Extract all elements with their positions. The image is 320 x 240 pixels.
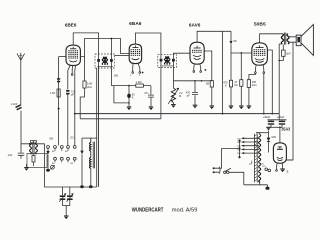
tube V4 50B5 envelope <box>252 43 268 65</box>
svg-text:1nF: 1nF <box>8 153 13 157</box>
wire V4 screen right <box>267 50 272 114</box>
resistor 470K grid leak <box>229 80 232 87</box>
capacitor C40b <box>279 120 285 128</box>
speaker driver <box>296 35 301 46</box>
node dot <box>142 72 144 74</box>
wire IFT1 secondary to V2 grid <box>114 54 129 56</box>
tube V5 35A3 envelope <box>273 143 286 163</box>
svg-text:B0: B0 <box>52 151 55 153</box>
wire V5 right heater <box>286 159 293 161</box>
wire B+ vertical <box>222 31 224 113</box>
wire screen resistor <box>80 57 84 119</box>
wire switch to transformer <box>229 172 244 185</box>
svg-text:B0: B0 <box>52 163 55 165</box>
tap 160 <box>242 141 260 143</box>
wire tuning bus <box>45 68 99 187</box>
wire AVC line <box>111 85 150 87</box>
svg-text:mod. A/59: mod. A/59 <box>172 207 198 213</box>
node <box>263 113 265 115</box>
wire diode loop <box>114 86 129 103</box>
svg-text:5K: 5K <box>233 39 237 43</box>
IF transformer T1 dashed box <box>95 54 114 68</box>
coil L1 antenna windings <box>30 142 38 155</box>
ground pot <box>172 102 174 104</box>
wire coupling to V4 grid <box>231 52 252 54</box>
wire secondary to speaker <box>288 37 296 42</box>
wire IFT1 inner bottom link <box>97 65 113 67</box>
wire V3 right to load <box>204 51 212 81</box>
IF transformer T2 dashed box <box>158 54 177 67</box>
capacitor C40a <box>268 120 274 128</box>
wire IFT2 secondary to V3 grid <box>173 53 190 56</box>
svg-text:+40µF: +40µF <box>263 115 271 119</box>
resistor 1.5K <box>57 89 60 97</box>
wire to ground <box>128 103 130 107</box>
wire transformer link <box>256 132 269 134</box>
svg-text:+40µF: +40µF <box>277 115 285 119</box>
resistor coil damping <box>32 156 35 163</box>
node on bus <box>89 185 93 188</box>
transformer T4 core <box>254 134 260 183</box>
ground coil <box>24 168 29 171</box>
wire IFT1 secondary up to screen bus <box>110 39 112 55</box>
wire main bus <box>75 113 279 115</box>
resistor 150ohm cathode <box>247 80 250 88</box>
wire V5 plate feed <box>279 127 281 143</box>
wire V1 screen right side <box>80 39 129 57</box>
capacitor 1nF antenna shunt <box>18 144 24 159</box>
pin V3 left <box>193 64 196 71</box>
pin V1 center stub <box>71 66 73 74</box>
tube V3 6AV6 envelope <box>190 42 204 64</box>
resistor 5K arrow element <box>230 31 232 41</box>
wire primary top <box>281 33 283 35</box>
switch band row2 <box>54 157 77 162</box>
svg-text:B0: B0 <box>65 151 68 153</box>
pin V4 heater <box>262 65 265 72</box>
capacitor 3.3pF osc <box>66 90 69 92</box>
svg-text:M: M <box>179 94 181 98</box>
node selector taps <box>238 140 240 142</box>
node <box>240 52 242 54</box>
wire speaker return <box>286 42 293 160</box>
capacitor 5nF tone <box>282 50 286 56</box>
wire rectifier branch <box>268 131 270 133</box>
wire plate load down <box>230 44 232 80</box>
tube V2 6BA6 envelope <box>129 44 141 64</box>
pilot lamp <box>265 168 268 171</box>
svg-text:12V: 12V <box>262 166 266 168</box>
wire IFT2 secondary lead <box>172 56 174 68</box>
tap 125 <box>242 148 260 150</box>
wire IFT1 secondary lead <box>110 54 112 86</box>
wire second bus <box>80 118 161 120</box>
node on bus <box>80 185 84 188</box>
svg-text:6AV6: 6AV6 <box>189 22 201 28</box>
svg-text:47n: 47n <box>144 91 149 95</box>
diode band (col A) <box>47 148 49 151</box>
wire IFT2 primary lead <box>160 54 162 118</box>
svg-text:OM: OM <box>49 138 53 141</box>
node heater return <box>266 187 270 190</box>
variable capacitor C1a <box>59 193 66 202</box>
tap 110 <box>242 152 260 154</box>
node <box>128 102 130 104</box>
svg-text:10K: 10K <box>114 74 119 78</box>
svg-text:5nF: 5nF <box>286 52 291 56</box>
switch band row1 <box>47 146 77 152</box>
svg-text:ohm: ohm <box>87 85 92 89</box>
ground <box>239 106 244 109</box>
wire V4 plate to transformer <box>260 34 282 43</box>
tube V2 electrodes <box>131 46 141 60</box>
wire bus to filter caps <box>278 114 280 120</box>
wire V1 plate to IFT1 <box>73 33 98 54</box>
wire filter cap feed <box>268 119 287 121</box>
node grid line <box>58 108 60 110</box>
diode 50K element <box>128 86 130 94</box>
transformer T3 output primary <box>281 33 289 45</box>
node <box>222 113 224 115</box>
tap 220 <box>242 137 260 139</box>
svg-text:10K: 10K <box>271 135 276 139</box>
wire osc coil to bus <box>90 168 92 185</box>
wire IFT1 primary lead through <box>98 54 100 187</box>
wire coil tops <box>31 141 37 144</box>
wire plug to selector <box>219 149 239 169</box>
node <box>278 60 280 62</box>
svg-text:50B5: 50B5 <box>254 22 266 28</box>
wire to ground <box>230 87 232 106</box>
svg-text:B: B <box>287 170 289 174</box>
coil L2 oscillator upper winding <box>90 138 95 168</box>
capacitor on grid line <box>57 78 60 80</box>
node <box>279 127 281 129</box>
wire diode down <box>268 141 270 152</box>
wire to ground <box>211 87 213 106</box>
wire to ground <box>248 87 250 105</box>
pin V4 cathode <box>254 65 257 72</box>
coil IFT1 core dark cluster <box>102 57 108 65</box>
wire antenna lead-in <box>20 60 22 105</box>
resistor 1M detector load <box>210 81 213 87</box>
capacitor IFT2 secondary blob <box>172 59 175 62</box>
svg-text:3: 3 <box>130 75 132 77</box>
ground <box>247 106 252 109</box>
tube V3 electrodes <box>192 46 202 60</box>
svg-text:6BA6: 6BA6 <box>129 21 142 27</box>
wire winding bottom <box>244 181 268 187</box>
svg-text:4: 4 <box>139 75 141 77</box>
plug mains <box>213 167 221 174</box>
wire detector output line <box>173 80 211 82</box>
svg-text:2.2pF: 2.2pF <box>11 103 18 106</box>
wire antenna to coil <box>21 111 45 144</box>
svg-text:1.2M: 1.2M <box>136 80 142 84</box>
pin V1 to bus <box>74 65 77 146</box>
capacitor IFT2 primary blob <box>160 59 163 62</box>
node junction <box>29 143 31 145</box>
pin V1 osc grid <box>68 65 70 89</box>
svg-text:pF: pF <box>71 93 74 97</box>
wire IFT2 inner bottom <box>161 65 173 67</box>
ground <box>127 107 132 110</box>
svg-text:35A3: 35A3 <box>281 127 290 132</box>
pin V2 heater right <box>138 63 140 71</box>
variable capacitor C1b <box>67 193 74 202</box>
tube V5 electrodes <box>277 147 283 161</box>
wire to ground <box>240 53 242 106</box>
svg-text:6BE6: 6BE6 <box>65 22 77 28</box>
svg-text:A: A <box>249 162 251 166</box>
wire caps common <box>269 126 283 128</box>
pin V5 cathode <box>276 163 279 170</box>
ground <box>229 106 234 109</box>
ground col A <box>46 169 50 172</box>
resistor 470K V4 grid <box>240 80 243 87</box>
ground filter caps <box>266 127 271 130</box>
wire osc grid to band switch <box>67 95 69 146</box>
capacitor 470pF <box>192 81 198 105</box>
tap 140 <box>242 145 260 147</box>
pin V3 right <box>199 64 202 71</box>
ground tuning gang <box>64 216 69 219</box>
wire V2 plate to IFT2 <box>135 33 161 54</box>
node <box>194 80 196 82</box>
svg-text:1M: 1M <box>205 82 209 86</box>
svg-text:WUNDERCART: WUNDERCART <box>132 207 164 213</box>
svg-text:1.5K: 1.5K <box>50 91 56 95</box>
wire V1 grid input left <box>59 56 66 58</box>
pin V5 heater <box>282 163 284 169</box>
wire primary bottom B+ <box>279 44 282 114</box>
tube V1 electrodes <box>68 47 78 62</box>
svg-text:ohm: ohm <box>252 83 257 87</box>
diode rectifier <box>268 133 270 138</box>
ground V5 <box>280 169 285 172</box>
node <box>111 38 113 40</box>
capacitor IFT1 secondary (blob) <box>110 59 113 62</box>
svg-text:B0: B0 <box>71 163 74 165</box>
node <box>271 113 273 115</box>
wire osc section top link <box>82 137 97 139</box>
ground <box>210 106 215 109</box>
potentiometer 2.2M volume <box>172 68 174 88</box>
pin V2 heater left <box>132 64 134 72</box>
node dot <box>205 69 207 71</box>
capacitor IFT1 primary (blob) <box>97 59 100 62</box>
tube V4 electrodes <box>254 45 266 62</box>
wire winding top <box>256 133 260 135</box>
svg-text:OC: OC <box>70 136 74 139</box>
wire V3 plate top run <box>197 31 231 42</box>
antenna <box>17 53 25 60</box>
wire gang commons <box>63 200 70 216</box>
wire voltage selector bar <box>239 140 241 157</box>
svg-text:K: K <box>132 95 134 99</box>
resistor 5.6K screen <box>83 81 86 88</box>
switch mains <box>224 171 226 173</box>
svg-text:K: K <box>225 83 227 87</box>
shield box <box>27 153 47 167</box>
ground <box>149 107 154 110</box>
speaker cone <box>301 24 313 55</box>
diode padder <box>81 138 83 151</box>
trimmer capacitor <box>51 165 55 169</box>
capacitor 2.2pF antenna series <box>15 104 22 110</box>
coil IFT2 core cluster <box>164 56 170 64</box>
capacitor 47n <box>148 86 154 107</box>
svg-text:pF: pF <box>187 94 190 98</box>
wire V1 grid line down <box>58 57 60 146</box>
svg-text:0K: 0K <box>234 83 237 87</box>
wire gang feeds <box>63 187 70 195</box>
resistor 1.2M horizontal <box>136 84 144 87</box>
ground <box>193 105 198 108</box>
node <box>128 85 130 87</box>
tube V1 6BE6 envelope <box>66 45 80 65</box>
